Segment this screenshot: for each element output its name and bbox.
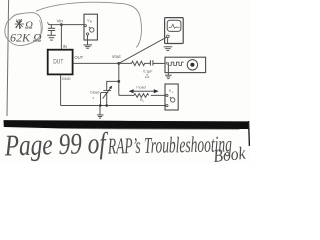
capacitor Cload (variable): [101, 90, 112, 105]
resistor RL: [134, 94, 149, 98]
svg-text:Book: Book: [212, 143, 247, 164]
page edge line (left): [7, 0, 9, 116]
oscilloscope: [165, 18, 184, 44]
ground (VIN supply): [83, 45, 92, 48]
resistor (series output): [119, 61, 150, 65]
svg-text:+: +: [172, 90, 174, 94]
svg-text:62K Ω: 62K Ω: [10, 31, 42, 45]
svg-text:IN: IN: [63, 44, 67, 49]
node bus junction a: [99, 104, 102, 107]
power supply VIN: [84, 14, 97, 44]
capacitor input bypass: [48, 25, 55, 35]
ground (input cap): [47, 35, 56, 40]
svg-text:Vin: Vin: [57, 19, 64, 24]
svg-text:DUT: DUT: [53, 59, 63, 65]
wire to scope probe (diagonal): [119, 37, 167, 63]
svg-text:1µF: 1µF: [145, 75, 150, 79]
scan bar: [4, 120, 250, 129]
wire Vin horizontal: [48, 24, 84, 26]
node bus junction b: [105, 104, 108, 107]
annotation cloud: 62K ohm: [5, 13, 42, 46]
svg-text:I load: I load: [136, 86, 145, 90]
function generator: [165, 57, 206, 72]
wire Vout down: [118, 63, 120, 95]
svg-text:GND: GND: [62, 76, 71, 81]
ground (scope): [164, 47, 173, 51]
wire ground bus: [61, 105, 165, 107]
power supply V+ (load): [165, 84, 178, 110]
ground (bus): [97, 106, 104, 119]
svg-text:Cload: Cload: [90, 90, 99, 94]
node Cload junction: [117, 80, 120, 83]
annotation leader curve: [36, 2, 141, 47]
wire IN (junction to DUT): [60, 25, 62, 50]
DUT box: [48, 50, 73, 75]
ground (function generator input): [165, 64, 172, 79]
svg-text:OUT: OUT: [74, 55, 83, 60]
svg-text:Page 99 of: Page 99 of: [4, 127, 109, 163]
caption handwriting: [4, 127, 248, 166]
wire Cload branch: [107, 81, 119, 90]
capacitor 0.1uF: [150, 60, 165, 65]
wire RL branch: [119, 94, 166, 96]
svg-text:IN: IN: [90, 19, 93, 23]
svg-text:Vout: Vout: [112, 54, 122, 59]
